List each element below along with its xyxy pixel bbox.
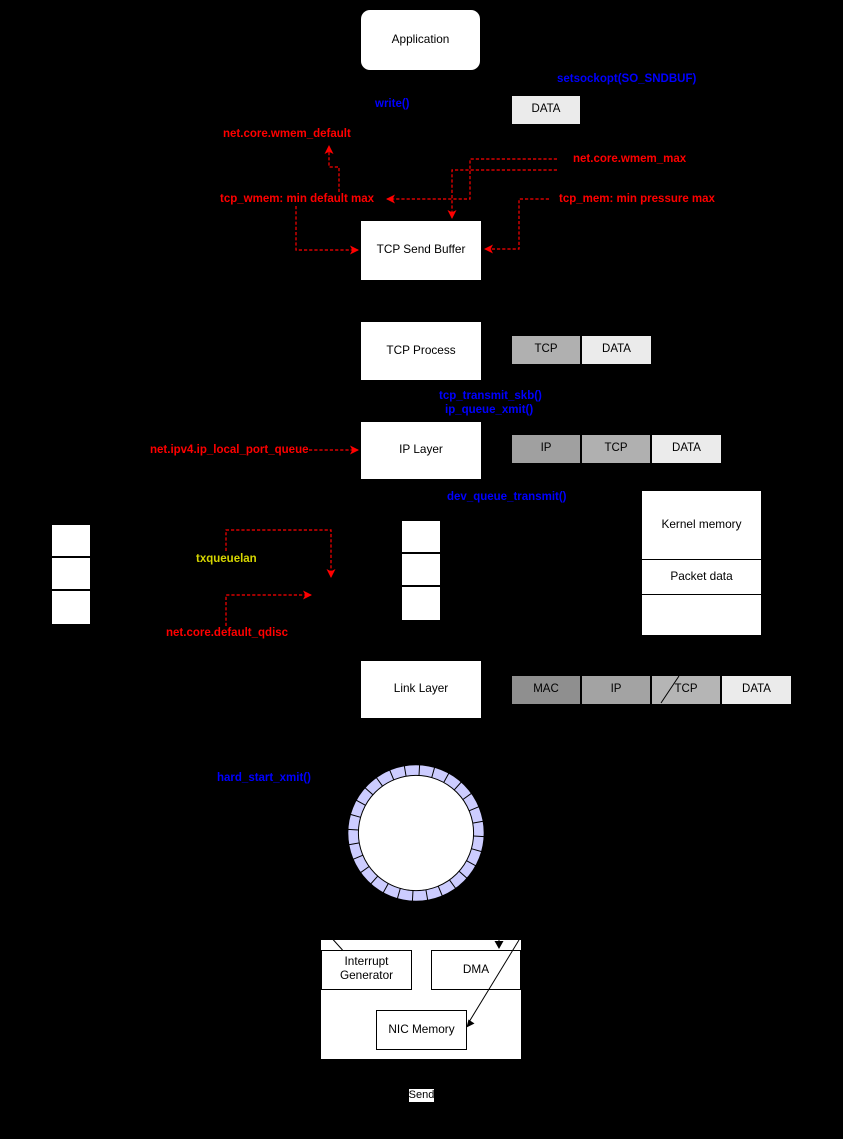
- divider kernel memory: [642, 559, 761, 561]
- wire red arrow tcp_mem to TCP Send Buffer right: [485, 199, 549, 249]
- box Kernel memory (3 sections): [642, 491, 761, 559]
- label tcp_mem: min pressure max: [559, 193, 712, 205]
- wire black slash in TCP cell row4: [661, 676, 679, 703]
- cell TCP (row2): [512, 336, 580, 364]
- wire red arrow ip_local_port_queue to IP Layer: [309, 449, 358, 451]
- box IP Layer: [361, 422, 481, 479]
- wire black arrow down into NIC: [498, 940, 500, 943]
- cell IP (row4): [582, 676, 650, 704]
- label setsockopt(SO_SNDBUF): [557, 73, 695, 85]
- queue left cell 1: [52, 525, 90, 556]
- box Interrupt Generator: [321, 950, 412, 990]
- box NIC Memory: [376, 1010, 467, 1050]
- queue left cell 2: [52, 558, 90, 589]
- wire black diagonal NIC top-left: [333, 940, 343, 951]
- label net.core.wmem_default: [223, 128, 347, 140]
- label tcp_wmem: min default max: [220, 193, 372, 205]
- box Packet data: [642, 560, 761, 594]
- box NIC container: [321, 940, 521, 1059]
- cell IP (row3): [512, 435, 580, 463]
- wire red arrow net.core.wmem_max to tcp_wmem: [387, 159, 557, 199]
- cell TCP (row3): [582, 435, 650, 463]
- label dev_queue_transmit(): [447, 491, 564, 503]
- wire red arrow net.core.wmem_max to TCP Send Buffer top: [452, 170, 557, 218]
- queue middle cell 2: [402, 554, 440, 585]
- label net.ipv4.ip_local_port_queue: [150, 444, 304, 456]
- box TCP Send Buffer: [361, 221, 481, 280]
- label hard_start_xmit(): [217, 772, 310, 784]
- cell TCP (row4): [652, 676, 720, 704]
- label net.core.default_qdisc: [166, 627, 283, 639]
- queue left cell 3: [52, 591, 90, 624]
- label ip_queue_xmit(): [445, 404, 531, 416]
- box empty section: [642, 595, 761, 635]
- label net.core.wmem_max: [573, 153, 683, 165]
- NIC ring buffer: [348, 765, 484, 901]
- wire red arrow tcp_wmem to TCP Send Buffer left: [296, 206, 358, 250]
- cell DATA (row4): [722, 676, 791, 704]
- box TCP Process: [361, 322, 481, 380]
- queue middle cell 1: [402, 521, 440, 552]
- cell MAC (row4): [512, 676, 580, 704]
- queue middle cell 3: [402, 587, 440, 620]
- box DMA: [431, 950, 521, 990]
- label tcp_transmit_skb(): [439, 390, 540, 402]
- label Send: [409, 1089, 434, 1102]
- cell DATA (row2): [582, 336, 651, 364]
- label write(): [375, 98, 408, 110]
- box Application: [361, 10, 480, 70]
- wire red arrow txqueuelan loop: [226, 530, 331, 577]
- wire red arrow net.core.default_qdisc: [226, 595, 311, 626]
- wire black diagonal DMA to NIC Memory: [469, 940, 519, 1022]
- wire red arrow tcp_wmem to net.core.wmem_default: [329, 146, 339, 192]
- cell DATA (row3): [652, 435, 721, 463]
- label txqueuelan: [196, 553, 256, 565]
- box Link Layer: [361, 661, 481, 718]
- box DATA (top): [512, 96, 580, 124]
